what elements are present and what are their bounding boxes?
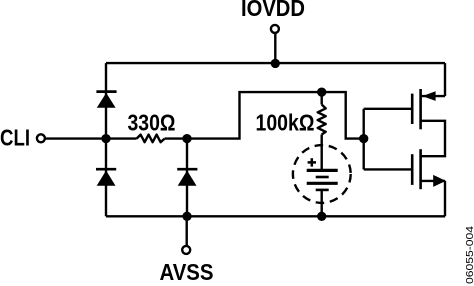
wire right rail top [444, 63, 446, 96]
wire D3 branch [186, 139, 188, 217]
wire resistor to node B [165, 137, 187, 139]
diode D3 [177, 169, 197, 186]
svg-text:CLI: CLI [0, 125, 30, 151]
wire Q1 lower lead and mid jog [421, 121, 445, 156]
wire Q1 upper lead [421, 95, 445, 97]
wire node B to 100k top [187, 92, 322, 139]
wire bottom rail [106, 215, 445, 217]
wire AVSS lead [185, 216, 187, 245]
wire CLI lead [45, 137, 106, 139]
transistor Q2 channel bar [419, 149, 422, 189]
wire left vertical [105, 63, 107, 216]
terminal IOVDD [271, 25, 279, 33]
node dot resistor node [182, 134, 191, 143]
transistor Q1 channel bar [419, 89, 422, 129]
svg-text:IOVDD: IOVDD [241, 0, 305, 21]
node dot CLI node [101, 134, 110, 143]
diode D2 [96, 169, 116, 186]
svg-text:330Ω: 330Ω [128, 110, 176, 136]
transistor Q2 gate bar [411, 154, 414, 185]
wire 100k top lead [321, 92, 323, 104]
wire right rail bottom [444, 181, 446, 216]
transistor Q2 arrow [433, 175, 446, 187]
svg-text:06055-004: 06055-004 [465, 225, 474, 284]
battery B1 plates [307, 170, 338, 190]
resistor R2 100kohm [318, 105, 326, 135]
node dot battery bottom [317, 212, 326, 221]
svg-text:100kΩ: 100kΩ [256, 110, 315, 136]
node dot AVSS tap [182, 212, 191, 221]
svg-text:AVSS: AVSS [160, 259, 214, 285]
terminal CLI [37, 134, 45, 142]
wire gate net vertical [363, 109, 365, 170]
wire IOVDD lead [274, 33, 276, 63]
wire 100k bottom to battery [321, 135, 323, 171]
wire bottom gate lead [364, 168, 413, 170]
wire battery bottom [321, 190, 323, 216]
resistor R1 330ohm [137, 135, 165, 143]
battery plus sign [308, 158, 316, 166]
node dot gate junction [359, 134, 368, 143]
diode D1 [96, 92, 116, 108]
transistor Q1 arrow [422, 91, 435, 101]
wire top gate lead [364, 108, 413, 110]
node dot IOVDD tap [271, 59, 280, 68]
battery dashed circle [293, 145, 351, 203]
node dot 100k top [317, 87, 326, 96]
transistor Q1 gate bar [411, 94, 414, 124]
wire Q2 lower lead [421, 180, 445, 182]
wire top rail [106, 62, 445, 64]
wire CLI node to resistor [106, 137, 137, 139]
wire 100k top to gate corner [322, 92, 364, 139]
terminal AVSS [182, 246, 190, 254]
